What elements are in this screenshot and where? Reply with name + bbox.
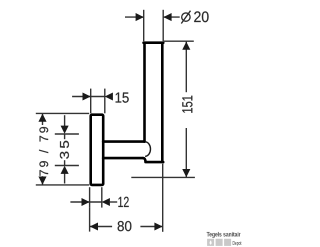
svg-text:Tegels sanitair: Tegels sanitair bbox=[207, 231, 241, 238]
svg-text:Depot: Depot bbox=[233, 241, 242, 247]
